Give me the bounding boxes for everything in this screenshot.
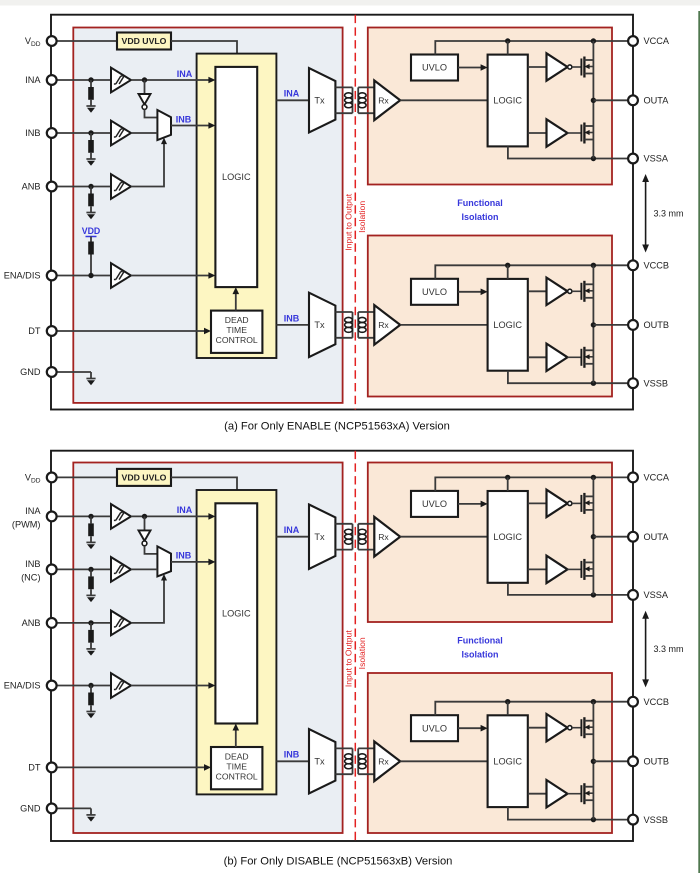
- svg-text:(a) For Only ENABLE (NCP51563x: (a) For Only ENABLE (NCP51563xA) Version: [224, 421, 450, 433]
- svg-text:ANB: ANB: [22, 618, 41, 628]
- svg-text:GND: GND: [20, 803, 41, 813]
- svg-text:Functional: Functional: [457, 636, 503, 646]
- svg-text:TIME: TIME: [226, 325, 247, 335]
- svg-text:INB: INB: [25, 128, 40, 138]
- svg-text:Tx: Tx: [314, 757, 325, 767]
- svg-text:UVLO: UVLO: [422, 499, 447, 509]
- svg-text:OUTB: OUTB: [644, 320, 670, 330]
- svg-text:(NC): (NC): [21, 573, 40, 583]
- svg-text:VCCA: VCCA: [644, 473, 670, 483]
- svg-text:UVLO: UVLO: [422, 723, 447, 733]
- svg-text:CONTROL: CONTROL: [216, 335, 258, 345]
- svg-text:INB: INB: [284, 750, 300, 760]
- svg-text:INB: INB: [284, 313, 300, 323]
- svg-text:3.3 mm: 3.3 mm: [654, 208, 684, 218]
- svg-text:(b) For Only DISABLE (NCP51563: (b) For Only DISABLE (NCP51563xB) Versio…: [224, 856, 453, 868]
- svg-text:Isolation: Isolation: [357, 637, 367, 669]
- svg-text:Tx: Tx: [314, 532, 325, 542]
- svg-text:INA: INA: [25, 506, 41, 516]
- svg-text:VSSA: VSSA: [644, 590, 669, 600]
- svg-text:ANB: ANB: [22, 182, 41, 192]
- svg-text:Rx: Rx: [378, 757, 389, 767]
- svg-text:LOGIC: LOGIC: [493, 532, 522, 542]
- svg-text:Tx: Tx: [314, 320, 325, 330]
- svg-text:Tx: Tx: [314, 96, 325, 106]
- svg-text:Input to Output: Input to Output: [344, 630, 354, 687]
- svg-text:INB: INB: [176, 551, 192, 561]
- svg-text:VSSB: VSSB: [644, 815, 669, 825]
- svg-text:DT: DT: [28, 326, 41, 336]
- svg-text:DEAD: DEAD: [225, 315, 249, 325]
- svg-text:VCCB: VCCB: [644, 697, 670, 707]
- svg-text:INA: INA: [284, 89, 300, 99]
- svg-text:LOGIC: LOGIC: [493, 320, 522, 330]
- svg-text:DT: DT: [28, 762, 41, 772]
- svg-text:VDD UVLO: VDD UVLO: [122, 36, 167, 46]
- svg-text:VSSA: VSSA: [644, 154, 669, 164]
- svg-text:VDD UVLO: VDD UVLO: [122, 472, 167, 482]
- svg-text:3.3 mm: 3.3 mm: [654, 644, 684, 654]
- svg-text:GND: GND: [20, 367, 41, 377]
- svg-text:DEAD: DEAD: [225, 752, 249, 762]
- svg-text:INB: INB: [176, 114, 192, 124]
- svg-text:INA: INA: [177, 505, 193, 515]
- svg-text:INB: INB: [25, 559, 40, 569]
- svg-text:Isolation: Isolation: [461, 650, 498, 660]
- svg-text:TIME: TIME: [226, 762, 247, 772]
- svg-text:INA: INA: [177, 69, 193, 79]
- svg-text:LOGIC: LOGIC: [493, 756, 522, 766]
- svg-text:OUTA: OUTA: [644, 96, 670, 106]
- svg-text:VDD: VDD: [82, 226, 101, 236]
- svg-text:Isolation: Isolation: [357, 201, 367, 233]
- svg-text:OUTB: OUTB: [644, 757, 670, 767]
- svg-text:(PWM): (PWM): [12, 520, 41, 530]
- svg-text:UVLO: UVLO: [422, 63, 447, 73]
- svg-text:Functional: Functional: [457, 198, 503, 208]
- svg-text:UVLO: UVLO: [422, 287, 447, 297]
- svg-text:Rx: Rx: [378, 96, 389, 106]
- svg-text:VCCA: VCCA: [644, 36, 670, 46]
- svg-text:ENA/DIS: ENA/DIS: [4, 681, 41, 691]
- svg-text:VDD: VDD: [25, 36, 41, 48]
- svg-text:INA: INA: [284, 525, 300, 535]
- svg-text:VSSB: VSSB: [644, 378, 669, 388]
- svg-text:CONTROL: CONTROL: [216, 772, 258, 782]
- svg-text:OUTA: OUTA: [644, 532, 670, 542]
- svg-text:Input to Output: Input to Output: [344, 193, 354, 250]
- svg-text:VCCB: VCCB: [644, 261, 670, 271]
- svg-text:LOGIC: LOGIC: [493, 96, 522, 106]
- svg-text:INA: INA: [25, 75, 41, 85]
- svg-text:LOGIC: LOGIC: [222, 608, 251, 618]
- svg-text:Rx: Rx: [378, 320, 389, 330]
- svg-text:Isolation: Isolation: [461, 212, 498, 222]
- svg-text:LOGIC: LOGIC: [222, 172, 251, 182]
- svg-text:Rx: Rx: [378, 532, 389, 542]
- svg-text:ENA/DIS: ENA/DIS: [4, 271, 41, 281]
- svg-text:VDD: VDD: [25, 472, 41, 484]
